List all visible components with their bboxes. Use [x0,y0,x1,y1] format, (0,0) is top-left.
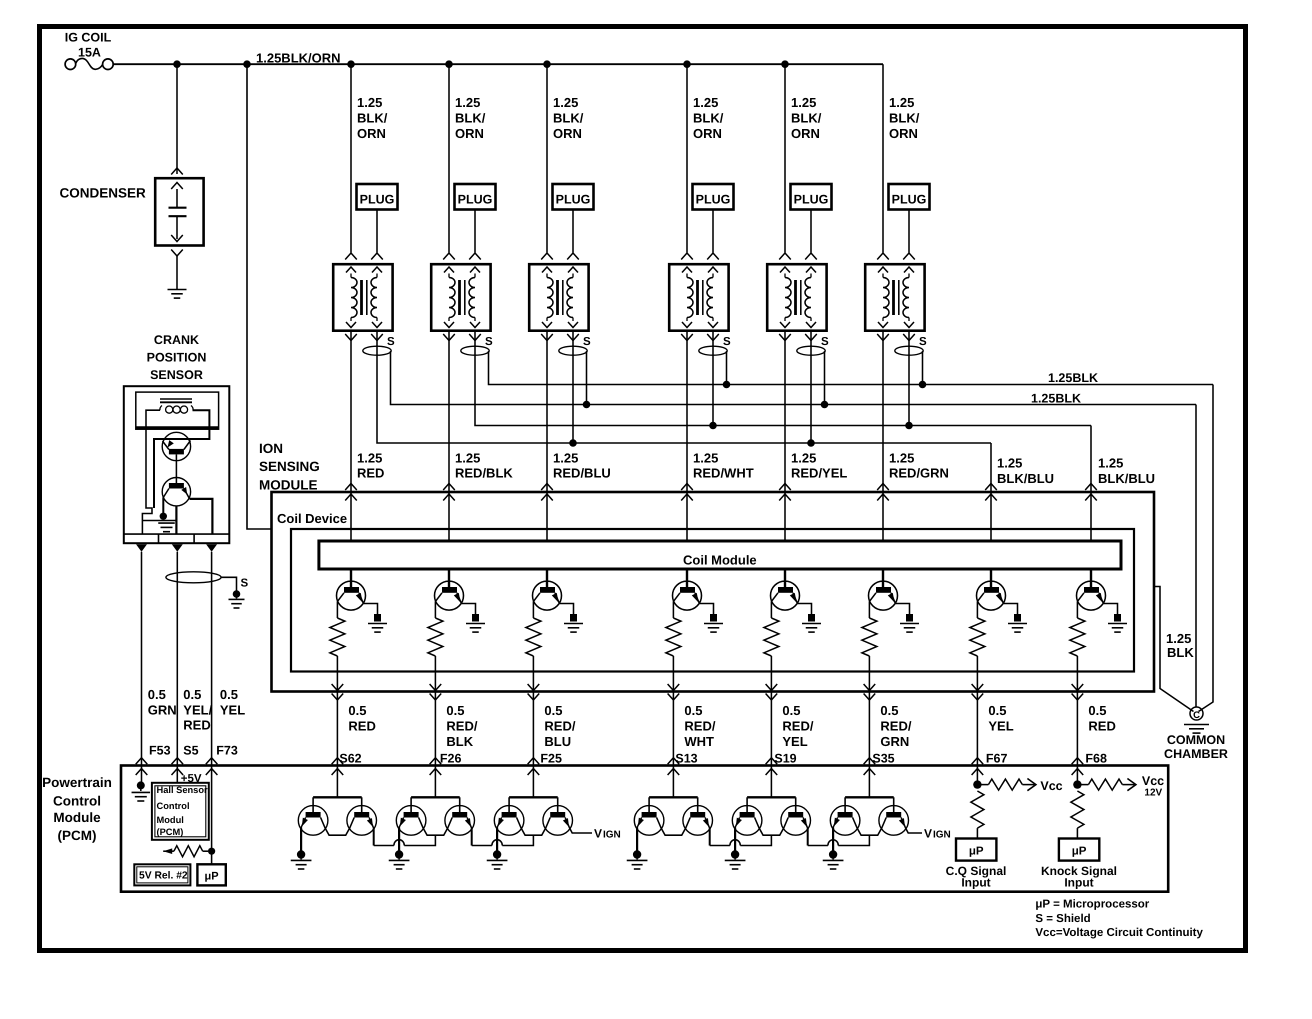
transistor Q4 (coil module driver) [673,569,702,610]
svg-text:RED/: RED/ [782,718,813,733]
label 1.25 RED/WHT [693,450,754,480]
wire: Q15 emitter to ground [636,828,638,852]
powertrain control module box [121,766,1168,892]
wire: coil 2 outputs below box [443,334,481,341]
wire: crank shield to ground [221,577,236,590]
wire: 1.25 RED/BLK to ion module [448,331,450,492]
transistor Q9 (PCM pair 1 left) [298,806,328,836]
label 0.5 RED [348,703,375,734]
svg-text:RED/GRN: RED/GRN [889,466,949,481]
wire: bus3 1.25 BLK/BLU drop [1090,426,1092,493]
svg-text:S: S [241,578,249,590]
shield S coil 5 [797,336,829,355]
shield S coil 4 [699,336,731,355]
ground (F53) [132,781,151,801]
svg-text:F67: F67 [986,751,1008,765]
svg-text:YEL: YEL [220,702,245,717]
label 1.25BLK/ORN [256,50,341,65]
ground (Q4 emitter) [704,614,723,632]
node: rail junction x=785 [781,60,789,68]
ground (pair 2) [389,850,410,869]
label COMMON CHAMBER [1164,733,1228,761]
svg-text:S: S [387,336,395,348]
resistor R5 [764,602,779,657]
svg-text:1.25: 1.25 [791,95,816,110]
svg-text:Modul: Modul [157,815,184,825]
wire: shield bus 1.25BLK (upper) to common chamber [1199,385,1214,712]
svg-text:0.5: 0.5 [1088,703,1106,718]
svg-text:SENSOR: SENSOR [150,368,203,382]
ignition coil T3 [529,253,588,331]
node: rail junction x=351 [347,60,355,68]
pin F53 [149,743,171,757]
wire: crank Q2 emitter to terminal 3 [190,499,213,534]
svg-text:F53: F53 [149,743,171,757]
node: rail junction x=687 [683,60,691,68]
legend [1035,899,1203,940]
wire: 1.25 BLK/ORN drop col 3 [546,64,548,252]
svg-text:RED/BLU: RED/BLU [553,466,611,481]
pin S35 [872,751,894,765]
svg-text:COMMON: COMMON [1167,733,1225,747]
wire: 0.5 output col 2 to PCM [430,684,442,775]
terminal arrow 2 (crank sensor) [172,544,183,552]
label 1.25 RED/GRN [889,450,949,480]
wire: R4 output [672,656,674,692]
svg-text:12V: 12V [1144,788,1162,799]
label 0.5 GRN [148,687,177,717]
pin S19 [774,751,796,765]
svg-text:0.5: 0.5 [782,703,800,718]
svg-text:1.25: 1.25 [553,95,578,110]
pin S13 [675,751,697,765]
svg-text:IGN: IGN [603,830,621,841]
wire: entry into coil device col 3 [541,484,553,542]
wire: Q11 emitter to ground [398,828,400,852]
wire: bus4 1.25 BLK/BLU drop [990,443,992,492]
svg-text:S5: S5 [183,743,198,757]
svg-text:V: V [594,827,602,841]
transistor Q6 (coil module driver) [869,569,898,610]
label 1.25 RED [357,450,384,480]
fuse IG COIL 15A [65,31,113,70]
wire: plug 1 return to bus4 [377,331,991,443]
label 0.5 YEL [220,687,245,717]
svg-text:PLUG: PLUG [556,193,591,207]
label 0.5 YEL/RED [183,687,212,733]
wire: 1.25 BLK/ORN drop col 6 [882,64,884,252]
svg-text:1.25: 1.25 [357,450,382,465]
label ION SENSING MODULE [259,441,320,493]
wire: Q1 emitter to ground [364,604,378,615]
node: F67 junction [973,780,981,788]
wire: top power rail [113,63,883,65]
svg-text:Control: Control [157,801,190,811]
label 0.5 YEL [988,703,1013,734]
label 0.5 RED/GRN [880,703,911,749]
wire: plug 2 return to bus3 [475,331,1091,426]
svg-text:C: C [1193,710,1200,721]
wire: F67 input [976,766,978,782]
svg-text:CHAMBER: CHAMBER [1164,747,1228,761]
wire: crank Q2 bottom to terminal 2 [175,506,177,534]
resistor (series F68) [1071,791,1084,839]
svg-text:PLUG: PLUG [696,193,731,207]
node: rail junction x=449 [445,60,453,68]
transistor Q17 (PCM pair 5 left) [732,806,762,836]
svg-text:1.25BLK/ORN: 1.25BLK/ORN [256,50,341,65]
transistor Q (crank lower) [162,478,190,506]
svg-text:S = Shield: S = Shield [1035,913,1090,925]
label 1.25 BLK/ORN col 3 [553,95,584,141]
svg-text:ORN: ORN [889,126,918,141]
svg-text:1.25: 1.25 [997,456,1022,471]
svg-text:5V Rel. #2: 5V Rel. #2 [139,871,188,882]
svg-text:0.5: 0.5 [220,687,238,702]
transistor Q5 (coil module driver) [771,569,800,610]
wire: coil 6 outputs below box [877,334,915,341]
ignition coil T4 [669,253,728,331]
svg-text:S62: S62 [339,751,361,765]
ground (pair 6) [823,850,844,869]
wire: shield 2 to bus1 [489,351,1214,385]
label Vcc [1040,779,1062,793]
svg-text:μP: μP [205,871,219,883]
ground (Q8 emitter) [1108,614,1127,632]
transistor Q (crank upper) [162,432,190,460]
svg-text:1.25: 1.25 [889,450,914,465]
label 0.5 RED/BLK [446,703,477,749]
wire: shield 6 joins bus1 [919,351,927,388]
svg-text:IG COIL: IG COIL [65,31,112,45]
svg-text:1.25: 1.25 [1166,631,1191,646]
svg-text:PLUG: PLUG [360,193,395,207]
wire: 1.25 BLK/ORN drop col 2 [448,64,450,252]
wire: crank output 1 to PCM [136,552,148,775]
svg-text:RED/: RED/ [544,718,575,733]
wire: plug 3 return joins bus4 [569,331,577,447]
wire: F73 to microprocessor [211,766,213,865]
svg-text:1.25: 1.25 [357,95,382,110]
svg-text:S: S [583,336,591,348]
wire: S13 to pair 4 collectors [649,766,698,813]
svg-text:ORN: ORN [357,126,386,141]
wire: entry into coil device col 1 [345,484,357,542]
terminal arrow 1 (crank sensor) [136,544,147,552]
wire: shield 5 joins bus2 [821,351,829,408]
svg-text:Control: Control [53,794,101,809]
wire: S5 into hall module [176,766,178,783]
svg-text:PLUG: PLUG [794,193,829,207]
ground under condenser [168,290,187,299]
wire: 0.5 output col 4 to PCM [668,684,680,775]
wire: coil 4 outputs below box [681,334,719,341]
svg-text:WHT: WHT [684,734,714,749]
ignition coil T5 [767,253,826,331]
ground (pair 3) [487,850,508,869]
shield S coil 3 [559,336,591,355]
svg-text:BLK/: BLK/ [357,110,388,125]
wire: plug 4 secondary [712,210,714,253]
label 0.5 RED/WHT [684,703,715,749]
wire: crank output 3 to PCM [206,552,218,775]
resistor R1 [330,602,345,657]
node: rail junction x=177 [173,60,181,68]
transistor Q7 (coil module driver) [977,569,1006,610]
label 1.25 BLK (case wire) [1166,631,1194,660]
wire: pair 4 cross link [657,818,691,836]
wire: condenser to ground [171,250,183,290]
resistor R6 [862,602,877,657]
pin F68 [1085,751,1107,765]
resistor (5V reference) with arrow [163,846,208,857]
svg-text:0.5: 0.5 [880,703,898,718]
svg-text:ORN: ORN [791,126,820,141]
wire: 1.25 BLK/ORN drop col 1 [350,64,352,252]
svg-text:RED: RED [1088,718,1115,733]
wire: plug 5 secondary [810,210,812,253]
resistor R2 [428,602,443,657]
ion sensing module: Coil Device box [272,492,1155,692]
svg-text:0.5: 0.5 [348,703,366,718]
ignition coil T6 [865,253,924,331]
svg-text:F26: F26 [440,751,462,765]
transistor Q3 (coil module driver) [533,569,562,610]
wire: 1.25 RED/GRN to ion module [882,331,884,492]
wire: R6 output [868,656,870,692]
wire: pair 6 cross link [853,818,887,836]
wire: condenser drop [176,64,178,174]
wire: pickup coil right lead [154,410,209,508]
svg-text:1.25: 1.25 [791,450,816,465]
ground (Q1 emitter) [368,614,387,632]
svg-text:RED/YEL: RED/YEL [791,466,847,481]
wire: Q9 emitter to ground [300,828,302,852]
wire: shield 3 joins bus2 [583,351,591,408]
svg-text:POSITION: POSITION [147,351,207,365]
wire: coil 5 outputs below box [779,334,817,341]
transistor Q20 (PCM pair 6 right) [879,806,909,836]
svg-text:Input: Input [1064,876,1093,890]
svg-text:S35: S35 [872,751,894,765]
label Powertrain Control Module (PCM) [42,775,112,843]
svg-text:0.5: 0.5 [544,703,562,718]
wire: 1.25 RED/YEL to ion module [784,331,786,492]
pin S62 [339,751,361,765]
svg-text:ORN: ORN [693,126,722,141]
wire: Q6 emitter to ground [896,604,910,615]
wire: 0.5 output col 5 to PCM [766,684,778,775]
svg-text:1.25: 1.25 [693,450,718,465]
svg-text:S: S [821,336,829,348]
ground (common chamber) [1184,725,1209,734]
wire: plug 5 return joins bus4 [807,331,815,447]
wire: pair 4 link to pair 5 [710,828,772,845]
svg-text:1.25: 1.25 [455,450,480,465]
label 1.25 BLK/ORN col 1 [357,95,388,141]
wire: Q3 emitter to ground [560,604,574,615]
svg-text:YEL: YEL [988,718,1013,733]
svg-text:S: S [723,336,731,348]
svg-text:1.25: 1.25 [553,450,578,465]
transistor Q2 (coil module driver) [435,569,464,610]
wire: pair 6 to VIGN [906,828,922,833]
wire: crank output 2 to PCM [172,552,184,775]
wire: 0.5 output col 3 to PCM [528,684,540,775]
label 1.25 BLK/ORN col 4 [693,95,724,141]
svg-text:BLK/: BLK/ [693,110,724,125]
wire: shield 4 joins bus1 [723,351,731,388]
label 1.25 BLK/BLU (col7) [997,456,1054,487]
ground (Q3 emitter) [564,614,583,632]
label 1.25BLK (upper) [1048,371,1098,385]
wire: 0.5 output col 6 to PCM [864,684,876,775]
wire: pair 2 link to pair 3 [472,828,534,845]
shield S coil 6 [895,336,927,355]
wire: plug 6 return joins bus3 [905,331,913,430]
label 1.25 RED/BLU [553,450,611,480]
ground (pair 1) [291,850,312,869]
svg-text:S: S [485,336,493,348]
microprocessor box (PCM) [197,864,225,885]
ground (crank shield) [229,590,245,608]
svg-text:BLK/: BLK/ [455,110,486,125]
wire: plug 2 secondary [474,210,476,253]
microprocessor box (Knock input) [1059,839,1099,861]
resistor R7 [970,602,985,657]
svg-text:BLU: BLU [544,734,571,749]
wire: 0.5 output col 7 to PCM [972,684,984,775]
label +5V [181,773,202,785]
svg-text:Input: Input [961,876,990,890]
ground (crank sensor internal) [158,513,175,532]
svg-text:Coil Module: Coil Module [683,553,757,568]
wire: Q5 emitter to ground [798,604,812,615]
svg-text:F68: F68 [1085,751,1107,765]
svg-text:1.25: 1.25 [1098,456,1123,471]
svg-text:μP: μP [969,846,984,858]
pin F25 [540,751,562,765]
resistor R4 [666,602,681,657]
label Knock Signal Input [1041,864,1117,890]
wire: pair 1 link to pair 2 [374,828,436,845]
ground (Q7 emitter) [1008,614,1027,632]
label 1.25 RED/YEL [791,450,847,480]
ground (Q2 emitter) [466,614,485,632]
resistor R8 [1070,602,1085,657]
svg-text:RED/: RED/ [880,718,911,733]
label VIGN [594,827,621,841]
label S (crank shield) [241,578,249,590]
wire: plug 3 secondary [572,210,574,253]
wire: rail to ion sensing module [247,64,272,529]
wire: 1.25 RED/WHT to ion module [686,331,688,492]
node: rail junction x=247 [243,60,251,68]
pin S5 [183,743,198,757]
svg-text:S13: S13 [675,751,697,765]
resistor (series F67) [971,791,984,839]
wire: F53 to internal ground [141,766,143,783]
svg-text:μP = Microprocessor: μP = Microprocessor [1035,899,1149,911]
svg-text:V: V [924,827,932,841]
label 1.25 BLK/ORN col 5 [791,95,822,141]
svg-text:F73: F73 [216,743,238,757]
spark plug PLUG 2 [455,184,496,210]
wire: Q17 emitter to ground [734,828,736,852]
inner module box [291,529,1134,672]
label VIGN [924,827,951,841]
Coil Module bar [319,541,1121,569]
svg-text:RED: RED [348,718,375,733]
shield (crank harness) [166,572,221,583]
wire: plug 1 secondary [376,210,378,253]
svg-text:0.5: 0.5 [684,703,702,718]
wire: S19 to pair 5 collectors [747,766,796,813]
svg-text:YEL/: YEL/ [183,702,212,717]
spark plug PLUG 5 [791,184,832,210]
label 1.25BLK (lower) [1031,392,1081,406]
wire: internal bridge [142,520,176,522]
svg-text:BLK/: BLK/ [553,110,584,125]
transistor Q16 (PCM pair 4 right) [683,806,713,836]
transistor Q14 (PCM pair 3 right) [543,806,573,836]
wire: Q7 emitter to ground [1004,604,1018,615]
resistor (pullup to Vcc 1) [981,779,1036,791]
wire: F25 to pair 3 collectors [509,766,558,813]
svg-text:BLK/: BLK/ [889,110,920,125]
svg-text:BLK: BLK [1167,645,1194,660]
resistor R3 [526,602,541,657]
wire: Q4 emitter to ground [700,604,714,615]
ground (pair 4) [627,850,648,869]
svg-text:Hall Sensor: Hall Sensor [157,785,209,795]
wire: entry into coil device col 2 [443,484,455,542]
wire: pair 1 cross link [321,818,355,836]
spark plug PLUG 1 [357,184,398,210]
ground (Q6 emitter) [900,614,919,632]
terminal arrow 3 (crank sensor) [206,544,217,552]
wire: entry into coil device col 7 [985,484,997,542]
transistor Q19 (PCM pair 6 left) [830,806,860,836]
ground (Q5 emitter) [802,614,821,632]
wire: 1.25 RED/BLU to ion module [546,331,548,492]
wire: R7 output [976,656,978,692]
5V Rel.#2 box [134,864,190,885]
svg-text:GRN: GRN [880,734,909,749]
svg-text:Vcc: Vcc [1040,779,1062,793]
spark plug PLUG 3 [553,184,594,210]
transistor Q1 (coil module driver) [337,569,366,610]
svg-text:15A: 15A [78,45,101,59]
svg-text:YEL: YEL [782,734,807,749]
wire: entry into coil device col 4 [681,484,693,542]
label C.Q Signal Input [946,864,1007,890]
wire: R5 output [770,656,772,692]
svg-text:Powertrain: Powertrain [42,775,112,790]
svg-text:BLK: BLK [446,734,473,749]
svg-text:RED/: RED/ [684,718,715,733]
svg-text:BLK/: BLK/ [791,110,822,125]
svg-text:SENSING: SENSING [259,459,320,474]
ground (pair 5) [725,850,746,869]
svg-text:BLK/BLU: BLK/BLU [997,471,1054,486]
label 0.5 RED/YEL [782,703,813,749]
label 1.25 BLK/ORN col 2 [455,95,486,141]
wire: shield bus 1.25BLK (lower) to common chamber [1195,405,1197,707]
label 0.5 RED/BLU [544,703,575,749]
wire: Q13 emitter to ground [496,828,498,852]
Hall Sensor Control Module box [152,783,209,840]
